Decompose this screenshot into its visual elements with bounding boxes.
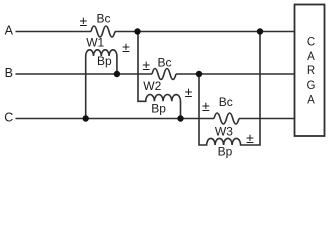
current coil Bc of wattmeter W3 (in line C) bbox=[214, 113, 239, 124]
junction: W2 Bp lead on line A bbox=[134, 28, 140, 34]
svg-text:±: ± bbox=[79, 13, 87, 29]
svg-text:W2: W2 bbox=[143, 79, 161, 93]
current coil Bc of wattmeter W1 (in line A) bbox=[91, 26, 115, 37]
svg-text:W1: W1 bbox=[86, 35, 104, 49]
wire: line A left segment bbox=[16, 31, 92, 33]
svg-text:A: A bbox=[307, 94, 315, 106]
svg-text:Bp: Bp bbox=[151, 102, 166, 116]
junction: W1 Bp lead on line B bbox=[114, 71, 120, 77]
wire: line C left segment bbox=[16, 118, 215, 120]
svg-text:G: G bbox=[307, 80, 316, 92]
svg-text:C: C bbox=[307, 37, 315, 49]
svg-text:Bp: Bp bbox=[97, 54, 112, 68]
svg-text:A: A bbox=[5, 24, 14, 38]
svg-text:R: R bbox=[307, 65, 315, 77]
svg-text:±: ± bbox=[246, 130, 254, 146]
svg-text:Bp: Bp bbox=[218, 145, 233, 159]
wire: line B right segment to load bbox=[176, 73, 295, 75]
svg-text:±: ± bbox=[142, 57, 150, 73]
svg-text:±: ± bbox=[185, 84, 193, 100]
svg-text:±: ± bbox=[202, 98, 210, 114]
potential coil Bp of wattmeter W2 with leads (line A to line C) bbox=[138, 32, 180, 119]
svg-text:W3: W3 bbox=[215, 125, 233, 139]
wire: line B left segment bbox=[16, 73, 153, 75]
potential coil Bp of wattmeter W3 with leads (line B to line A) bbox=[199, 32, 260, 146]
junction: W2 Bp lead on line C bbox=[177, 115, 183, 121]
svg-text:Bc: Bc bbox=[96, 11, 110, 25]
svg-text:Bc: Bc bbox=[219, 95, 233, 109]
svg-text:B: B bbox=[5, 66, 13, 80]
wire: line A right segment to load bbox=[115, 31, 295, 33]
junction: W1 Bp lead on line C bbox=[83, 115, 89, 121]
svg-text:Bc: Bc bbox=[157, 55, 171, 69]
junction: W3 Bp lead on line A bbox=[257, 28, 263, 34]
svg-text:±: ± bbox=[122, 39, 130, 55]
current coil Bc of wattmeter W2 (in line B) bbox=[152, 69, 176, 80]
svg-text:A: A bbox=[307, 51, 315, 63]
potential coil Bp of wattmeter W1 with leads (line C to line B) bbox=[86, 50, 117, 119]
svg-text:C: C bbox=[4, 111, 13, 125]
junction: W3 Bp lead on line B bbox=[196, 71, 202, 77]
wire: line C right segment to load bbox=[239, 118, 295, 120]
load box CARGA bbox=[295, 5, 325, 137]
